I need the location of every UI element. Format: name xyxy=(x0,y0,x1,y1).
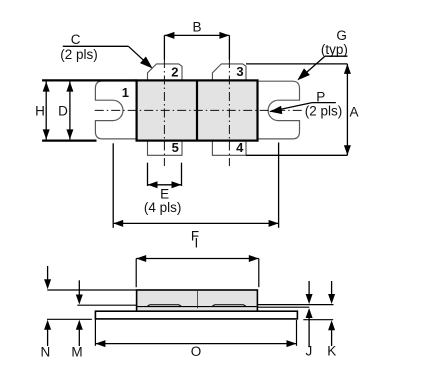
svg-text:(4 pls): (4 pls) xyxy=(144,200,182,215)
svg-text:C: C xyxy=(71,32,81,47)
svg-text:I: I xyxy=(195,236,199,251)
svg-text:4: 4 xyxy=(236,140,244,155)
svg-text:J: J xyxy=(306,343,313,358)
svg-text:(2 pls): (2 pls) xyxy=(305,103,343,118)
svg-text:3: 3 xyxy=(236,64,243,79)
svg-text:(typ): (typ) xyxy=(321,42,348,57)
svg-text:G: G xyxy=(336,28,347,43)
svg-text:K: K xyxy=(327,343,336,358)
svg-text:M: M xyxy=(71,344,82,359)
svg-text:5: 5 xyxy=(172,140,179,155)
svg-text:A: A xyxy=(350,104,359,119)
svg-text:D: D xyxy=(58,104,68,119)
svg-text:2: 2 xyxy=(171,65,178,80)
svg-text:1: 1 xyxy=(122,85,129,100)
svg-text:H: H xyxy=(35,104,45,119)
svg-text:B: B xyxy=(192,20,201,35)
svg-text:(2 pls): (2 pls) xyxy=(60,47,98,62)
svg-text:P: P xyxy=(316,89,325,104)
svg-text:O: O xyxy=(191,344,202,359)
svg-text:N: N xyxy=(41,344,51,359)
